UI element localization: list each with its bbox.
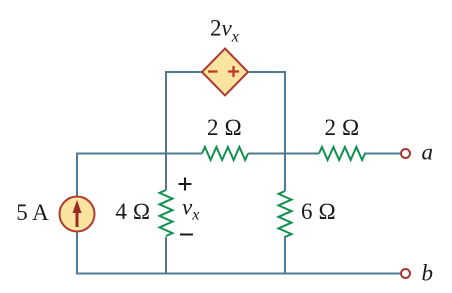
svg-text:4 Ω: 4 Ω <box>115 199 150 224</box>
wire branch 1 bottom section <box>165 237 167 275</box>
vx minus sign <box>180 234 193 236</box>
terminal a <box>401 149 410 158</box>
wire bottom rail <box>76 273 401 275</box>
svg-text:6 Ω: 6 Ω <box>301 199 336 224</box>
svg-text:5 A: 5 A <box>16 200 49 225</box>
svg-text:2 Ω: 2 Ω <box>325 115 360 140</box>
svg-text:2 Ω: 2 Ω <box>207 115 242 140</box>
wire middle rail right to terminal a <box>364 153 401 155</box>
dependent voltage source 2vx (diamond) <box>202 49 248 96</box>
vx plus sign <box>179 178 192 191</box>
resistor 4ohm (vertical) <box>160 190 173 236</box>
resistor 6ohm (vertical) <box>279 191 292 237</box>
terminal b <box>401 269 410 278</box>
wire left vertical with source <box>76 153 78 275</box>
wire right vertical branch 2 (top section) <box>284 71 286 191</box>
svg-text:a: a <box>422 140 434 165</box>
wire left vertical branch 1 (top section) <box>165 71 167 190</box>
wire branch 2 bottom section <box>284 236 286 275</box>
wire middle rail center <box>248 153 319 155</box>
resistor 2ohm (right, horizontal) <box>319 147 365 160</box>
resistor 2ohm (left, horizontal) <box>202 147 248 160</box>
wire top rail <box>166 71 285 73</box>
current source I 5A <box>60 197 95 232</box>
wire middle rail left <box>76 153 202 155</box>
svg-text:b: b <box>422 261 434 286</box>
